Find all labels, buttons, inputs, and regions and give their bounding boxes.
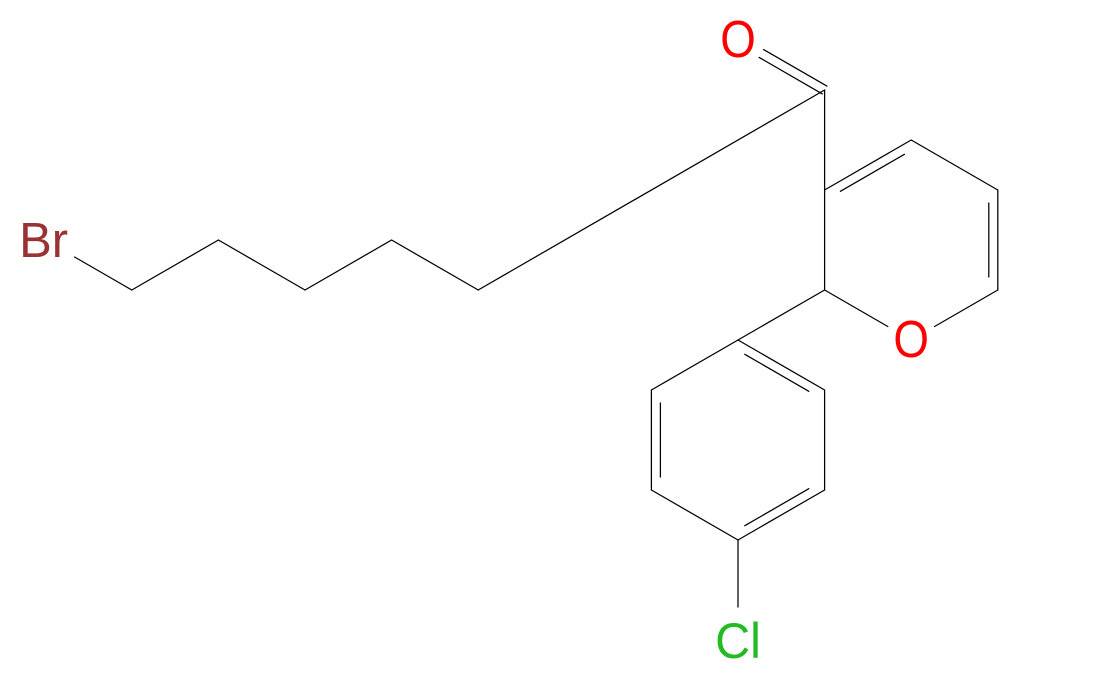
ring1 D-O <box>935 290 998 327</box>
ring2 dbl V1-V2 <box>745 354 809 391</box>
bond Br-C <box>75 257 132 290</box>
bond C-Cl <box>737 540 739 607</box>
ring1 B-C <box>911 140 998 190</box>
ring1 O-F <box>825 290 888 327</box>
svg-text:Cl: Cl <box>715 613 761 669</box>
ring2 dbl V3-V4 <box>745 489 809 526</box>
ring2 V5-V6 <box>650 390 652 490</box>
chain bond 5 <box>392 240 479 290</box>
ring2 dbl V5-V6 <box>659 403 661 477</box>
chain bond 2 <box>132 240 219 290</box>
ring1 F-A <box>824 190 826 290</box>
ring2 V3-V4 <box>738 490 825 540</box>
bond ring1-ring2 <box>738 290 825 340</box>
bond Cco-ring1 <box>824 90 826 190</box>
ring2 V1-V2 <box>738 340 825 390</box>
ring1 A-B <box>825 140 912 190</box>
ring2 V4-V5 <box>651 490 738 540</box>
chain straight run to carbonyl C <box>478 90 824 290</box>
svg-text:O: O <box>893 311 929 368</box>
svg-text:O: O <box>720 11 756 68</box>
ring1 C-D <box>997 190 999 290</box>
ring2 V2-V3 <box>824 390 826 490</box>
chain bond 3 <box>218 240 305 290</box>
ring1 dbl A-B <box>840 154 904 191</box>
C=O line a <box>764 50 827 87</box>
C=O line b <box>759 57 822 94</box>
chain bond 4 <box>305 240 392 290</box>
ring2 V6-V1 <box>651 340 738 390</box>
ring1 dbl C-D <box>988 203 990 277</box>
svg-text:Br: Br <box>19 214 68 268</box>
